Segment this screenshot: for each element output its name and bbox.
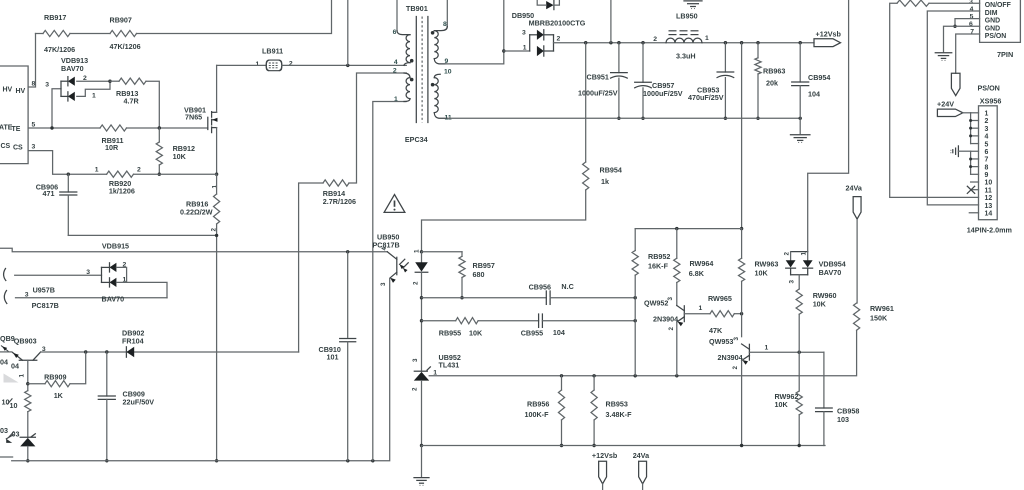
junction <box>105 350 108 353</box>
wire QB903 base down <box>27 360 29 390</box>
svg-text:14PIN-2.0mm: 14PIN-2.0mm <box>967 225 1012 234</box>
svg-text:8: 8 <box>443 21 447 28</box>
junction <box>592 374 595 377</box>
net flag PS/ON <box>951 73 960 95</box>
svg-text:1: 1 <box>413 249 420 253</box>
svg-text:2N3904: 2N3904 <box>653 315 678 324</box>
resistor (ON/OFF series, cropped) <box>897 0 929 6</box>
capacitor CB957 1000uF/25V <box>642 43 644 83</box>
svg-text:470uF/25V: 470uF/25V <box>688 93 724 102</box>
svg-text:3: 3 <box>985 126 989 133</box>
polarity dot <box>410 59 414 63</box>
junction <box>798 351 801 354</box>
IC U901 (controller, cropped at left edge) <box>0 66 28 164</box>
svg-text:2: 2 <box>289 60 293 67</box>
LED of UB950 <box>421 252 423 262</box>
junction <box>420 250 423 253</box>
svg-text:RW965: RW965 <box>708 294 732 303</box>
junction <box>84 350 87 353</box>
resistor RB907 <box>110 30 137 36</box>
svg-text:3: 3 <box>380 282 387 286</box>
svg-text:+12Vsb: +12Vsb <box>816 30 842 39</box>
svg-text:2: 2 <box>783 252 790 256</box>
svg-text:7: 7 <box>985 157 989 164</box>
svg-text:CB951: CB951 <box>587 73 609 82</box>
secondary winding pins 8-9 <box>446 0 448 27</box>
svg-text:RB956: RB956 <box>527 400 549 409</box>
svg-text:3: 3 <box>733 337 740 341</box>
wire GATE pin5 / gate net <box>28 127 100 129</box>
svg-text:3: 3 <box>25 291 29 298</box>
divider top rail <box>635 228 741 230</box>
junction <box>50 126 53 129</box>
resistor RW961 150K <box>854 303 860 330</box>
wire +12V to divider rail <box>741 43 743 229</box>
svg-text:6.8K: 6.8K <box>689 269 705 278</box>
wire HV pin8 to top rail <box>28 34 35 88</box>
capacitor CB954 104 <box>799 43 801 82</box>
junction <box>346 459 349 462</box>
polarity dot <box>410 78 414 82</box>
svg-text:QB9: QB9 <box>0 334 15 343</box>
capacitor CB958 103 <box>816 407 833 409</box>
svg-text:TB901: TB901 <box>406 4 428 13</box>
svg-text:RB909: RB909 <box>44 373 66 382</box>
zener diode (ghost D 03) <box>27 412 29 438</box>
resistor RB914 2.7R/1206 <box>323 180 349 186</box>
svg-text:3: 3 <box>788 280 795 284</box>
svg-text:20k: 20k <box>766 78 778 87</box>
resistor RB957 680 <box>461 252 463 256</box>
junction <box>641 41 644 44</box>
junction <box>740 41 743 44</box>
svg-text:RB953: RB953 <box>606 400 628 409</box>
svg-text:BAV70: BAV70 <box>102 295 125 304</box>
resistor RB911 <box>100 125 127 131</box>
svg-text:+12Vsb: +12Vsb <box>592 451 618 460</box>
svg-text:04: 04 <box>11 362 19 371</box>
svg-text:1: 1 <box>212 185 219 189</box>
wire upper feedback <box>422 297 547 299</box>
junction <box>108 80 111 83</box>
svg-text:HV: HV <box>16 88 26 95</box>
svg-text:1: 1 <box>985 111 989 118</box>
resistor RB912 <box>158 128 160 142</box>
junction <box>560 444 563 447</box>
svg-text:16K-F: 16K-F <box>648 262 669 271</box>
svg-text:1: 1 <box>95 167 99 174</box>
light arrows <box>400 259 405 264</box>
wire RB920 to source <box>134 173 217 175</box>
junction <box>215 234 218 237</box>
wire transformer pin1 down to ground rail <box>373 102 407 461</box>
resistor RB952 16K-F <box>634 229 636 251</box>
svg-text:14: 14 <box>985 210 993 217</box>
svg-text:XS956: XS956 <box>980 97 1002 106</box>
wire VDB913 anodes to RB913 <box>77 80 110 82</box>
svg-text:13: 13 <box>985 203 993 210</box>
resistor RB954 1k <box>585 43 587 162</box>
svg-text:2: 2 <box>412 387 419 391</box>
wire pin9 to rectifier riser <box>446 0 504 64</box>
svg-text:2: 2 <box>732 366 739 370</box>
junction <box>215 459 218 462</box>
svg-text:10K: 10K <box>173 152 187 161</box>
secondary control ground rail <box>422 445 826 447</box>
svg-text:2: 2 <box>653 36 657 43</box>
wire RB914 to DB902 net <box>299 183 323 352</box>
svg-text:BAV70: BAV70 <box>819 268 842 277</box>
svg-text:4: 4 <box>970 6 974 13</box>
junction <box>609 41 612 44</box>
junction <box>675 227 678 230</box>
resistor RW960 10K <box>796 289 802 314</box>
svg-text:10K: 10K <box>755 268 769 277</box>
capacitor CB910 101 <box>347 252 349 337</box>
svg-text:6: 6 <box>969 21 973 28</box>
svg-text:1: 1 <box>705 35 709 42</box>
svg-text:1: 1 <box>92 93 96 100</box>
junction <box>158 173 161 176</box>
svg-text:BAV70: BAV70 <box>61 64 84 73</box>
svg-text:10: 10 <box>444 69 452 76</box>
svg-text:EPC34: EPC34 <box>405 135 428 144</box>
junction <box>617 117 620 120</box>
bus GND pins 6-9 <box>970 151 972 174</box>
junction <box>420 319 423 322</box>
junction <box>740 444 743 447</box>
svg-text:100K-F: 100K-F <box>525 410 550 419</box>
ground <box>414 477 429 479</box>
resistor RB953 3.48K-F <box>593 376 595 390</box>
polarity dot <box>431 31 435 35</box>
svg-text:103: 103 <box>837 415 849 424</box>
ground <box>935 52 952 54</box>
junction <box>799 117 802 120</box>
svg-text:PS/ON: PS/ON <box>985 33 1006 40</box>
polarity dot <box>431 83 435 87</box>
svg-text:03: 03 <box>12 430 20 439</box>
svg-text:RB907: RB907 <box>110 16 132 25</box>
wire GND pin6 to ground <box>944 26 980 52</box>
junction <box>105 459 108 462</box>
svg-text:7PIN: 7PIN <box>997 50 1013 59</box>
svg-text:LB950: LB950 <box>676 12 698 21</box>
svg-text:RB917: RB917 <box>44 13 66 22</box>
junction <box>26 459 29 462</box>
svg-text:10: 10 <box>985 180 993 187</box>
capacitor CB953 470uF/25V <box>724 43 726 72</box>
wire LB911 to transformer pin4 <box>282 64 407 66</box>
svg-text:ON/OFF: ON/OFF <box>985 2 1011 9</box>
svg-text:RW961: RW961 <box>870 304 894 313</box>
svg-text:3: 3 <box>412 358 419 362</box>
svg-text:1: 1 <box>256 61 260 68</box>
svg-text:PC817B: PC817B <box>32 301 59 310</box>
junction <box>798 444 801 447</box>
resistor RW963 10K <box>741 229 743 259</box>
ground (LB950 shield) <box>684 0 702 2</box>
wire RB907 to top edge <box>137 0 332 34</box>
svg-text:N.C: N.C <box>561 282 573 291</box>
svg-text:47K: 47K <box>709 326 723 335</box>
svg-text:CB954: CB954 <box>808 73 830 82</box>
svg-text:2: 2 <box>413 281 420 285</box>
junction <box>502 49 505 52</box>
wire <box>478 320 538 322</box>
svg-text:4: 4 <box>985 134 989 141</box>
wire PS/ON pin7 <box>956 34 980 73</box>
ghost diode <box>6 439 12 443</box>
resistor RW965 47K <box>710 311 734 317</box>
svg-text:10K: 10K <box>813 299 827 308</box>
junction <box>756 41 759 44</box>
svg-text:1: 1 <box>394 96 398 103</box>
svg-text:GND: GND <box>985 25 1000 32</box>
junction <box>634 374 637 377</box>
resistor RW962 10K <box>798 352 800 391</box>
junction <box>26 382 29 385</box>
resistor (ghost R 10) <box>25 391 31 412</box>
resistor RB955 10K <box>456 318 478 324</box>
wire base to CB958 <box>823 352 825 408</box>
svg-text:CS: CS <box>13 145 23 152</box>
wire transformer pin2 to RB914 <box>349 73 406 183</box>
connector 7PIN (cropped at top) <box>980 0 1021 42</box>
capacitor CB906 471 <box>67 174 69 192</box>
svg-text:CB955: CB955 <box>521 329 543 338</box>
junction <box>799 41 802 44</box>
junction <box>460 296 463 299</box>
svg-text:RB955: RB955 <box>439 329 461 338</box>
svg-text:CS: CS <box>1 143 11 150</box>
resistor RB909 1K <box>28 383 45 385</box>
svg-text:2.7R/1206: 2.7R/1206 <box>323 197 356 206</box>
svg-text:1k: 1k <box>601 177 609 186</box>
svg-text:2N3904: 2N3904 <box>718 353 743 362</box>
wire <box>550 297 635 299</box>
svg-text:2: 2 <box>668 327 675 331</box>
junction <box>675 374 678 377</box>
junction <box>158 126 161 129</box>
junction <box>420 296 423 299</box>
secondary winding pins 10-11 <box>434 74 440 77</box>
primary ground rail <box>0 456 13 458</box>
svg-text:QW952: QW952 <box>644 299 668 308</box>
capacitor CB909 22uF/50V <box>106 352 108 396</box>
wire lower feedback <box>422 320 456 322</box>
svg-text:10: 10 <box>2 397 10 406</box>
svg-text:HV: HV <box>3 87 13 94</box>
wire RB954 to opto LED <box>422 190 586 252</box>
primary winding pins 6-4 <box>396 0 398 31</box>
svg-text:47K/1206: 47K/1206 <box>110 42 141 51</box>
junction <box>634 319 637 322</box>
wire source down <box>216 128 218 175</box>
wire U957B pin3 return <box>16 297 168 299</box>
junction <box>420 444 423 447</box>
svg-text:RB954: RB954 <box>600 166 622 175</box>
svg-text:2: 2 <box>557 36 561 43</box>
primary winding pins 2-1 <box>404 73 410 78</box>
ground (rotated, pin 6) <box>957 146 959 157</box>
svg-text:5: 5 <box>985 141 989 148</box>
secondary ground rail <box>447 117 800 119</box>
svg-text:RB963: RB963 <box>763 67 785 76</box>
wire primary feedback rail <box>0 248 387 252</box>
svg-text:12: 12 <box>985 195 993 202</box>
svg-text:3: 3 <box>45 82 49 89</box>
svg-text:1: 1 <box>765 345 769 352</box>
wire DIM to XS956 pin13 <box>927 11 979 205</box>
resistor RB917 <box>36 33 44 35</box>
svg-text:RW963: RW963 <box>755 260 779 269</box>
svg-text:4: 4 <box>381 247 388 251</box>
junction <box>953 25 956 28</box>
svg-text:3.48K-F: 3.48K-F <box>606 410 633 419</box>
junction <box>371 459 374 462</box>
svg-text:MBRB20100CTG: MBRB20100CTG <box>529 19 586 28</box>
svg-text:+24V: +24V <box>937 100 954 109</box>
bus +24V pins 1-5 <box>970 113 972 144</box>
junction <box>724 117 727 120</box>
svg-text:03: 03 <box>0 426 8 435</box>
no-connect X pin 11 <box>967 186 974 193</box>
wire +12V output rail <box>554 42 815 44</box>
wire drain up to LB911 node <box>216 65 218 112</box>
wire GND pin5 <box>955 19 980 27</box>
svg-text:04: 04 <box>0 358 8 367</box>
svg-text:471: 471 <box>43 189 55 198</box>
svg-text:PS/ON: PS/ON <box>978 84 1000 93</box>
svg-text:10K: 10K <box>775 400 789 409</box>
svg-text:1000uF/25V: 1000uF/25V <box>643 89 683 98</box>
svg-text:3: 3 <box>86 269 90 276</box>
svg-text:6: 6 <box>393 29 397 36</box>
junction <box>617 41 620 44</box>
svg-text:680: 680 <box>473 270 485 279</box>
junction <box>346 64 349 67</box>
svg-text:1K: 1K <box>54 391 64 400</box>
pin stubs <box>971 112 979 114</box>
svg-text:4.7R: 4.7R <box>124 97 140 106</box>
svg-text:2: 2 <box>393 68 397 75</box>
warning triangle <box>384 195 405 213</box>
svg-text:1: 1 <box>19 374 26 378</box>
svg-text:3.3uH: 3.3uH <box>676 51 696 60</box>
svg-text:2: 2 <box>211 228 218 232</box>
svg-text:8: 8 <box>985 164 989 171</box>
svg-text:7N65: 7N65 <box>185 113 202 122</box>
svg-text:104: 104 <box>553 328 565 337</box>
wire top-edge feed <box>347 0 349 65</box>
svg-text:RW964: RW964 <box>690 259 714 268</box>
svg-text:CB956: CB956 <box>529 283 551 292</box>
svg-text:DIM: DIM <box>985 10 998 17</box>
junction <box>634 296 637 299</box>
svg-text:FR104: FR104 <box>122 337 144 346</box>
svg-text:U957B: U957B <box>33 286 55 295</box>
QW953 base wire <box>749 351 824 353</box>
svg-text:TL431: TL431 <box>439 361 460 370</box>
junction <box>592 444 595 447</box>
svg-text:1k/1206: 1k/1206 <box>109 186 135 195</box>
svg-text:3: 3 <box>522 30 526 37</box>
svg-text:4: 4 <box>394 59 398 66</box>
junction <box>641 117 644 120</box>
resistor RB956 100K-F <box>561 376 563 390</box>
svg-text:104: 104 <box>808 90 820 99</box>
junction <box>560 374 563 377</box>
svg-text:QW953: QW953 <box>709 337 733 346</box>
svg-text:150K: 150K <box>870 314 888 323</box>
capacitor CB951 1000uF/25V <box>618 43 620 73</box>
svg-text:3: 3 <box>32 144 36 151</box>
svg-text:10: 10 <box>10 401 18 410</box>
capacitor CB956 N.C <box>545 291 547 304</box>
junction <box>756 117 759 120</box>
svg-text:22uF/50V: 22uF/50V <box>123 398 155 407</box>
resistor RB913 <box>110 80 119 82</box>
svg-text:TE: TE <box>12 126 21 133</box>
svg-text:QB903: QB903 <box>14 337 37 346</box>
svg-text:0.22Ω/2W: 0.22Ω/2W <box>180 208 213 217</box>
svg-text:RB952: RB952 <box>648 252 670 261</box>
wire CB906 to RB916 bottom (VDB915 net) <box>68 234 216 236</box>
QW952 base wire <box>684 313 710 315</box>
ground <box>790 134 810 136</box>
junction <box>346 250 349 253</box>
svg-text:RB957: RB957 <box>473 261 495 270</box>
svg-text:24Va: 24Va <box>846 184 863 193</box>
junction <box>724 41 727 44</box>
capacitor CB955 104 <box>538 314 540 327</box>
TL431 ref rail <box>429 330 856 376</box>
junction <box>584 41 587 44</box>
svg-text:1: 1 <box>699 305 703 312</box>
resistor RW964 6.8K <box>676 229 678 259</box>
svg-text:2: 2 <box>137 167 141 174</box>
svg-text:47K/1206: 47K/1206 <box>44 45 75 54</box>
svg-text:1000uF/25V: 1000uF/25V <box>578 88 618 97</box>
wire VDB915 anodes loop <box>116 267 126 282</box>
wire CS pin3 <box>28 151 107 175</box>
wire top-edge feed <box>610 0 612 43</box>
svg-text:3: 3 <box>667 297 674 301</box>
svg-text:LB911: LB911 <box>262 47 283 56</box>
junction <box>740 312 743 315</box>
svg-text:101: 101 <box>327 352 339 361</box>
svg-text:GND: GND <box>985 18 1000 25</box>
wire U957B to VDB915 pin3 <box>15 274 102 276</box>
resistor RB963 20k <box>757 43 759 58</box>
svg-text:6: 6 <box>985 149 989 156</box>
wire to gate <box>127 127 208 129</box>
svg-text:10K: 10K <box>469 329 483 338</box>
svg-text:VDB915: VDB915 <box>102 241 129 250</box>
wire ON/OFF to XS956 pin12 <box>890 3 979 197</box>
wire <box>70 33 110 35</box>
svg-text:2: 2 <box>985 118 989 125</box>
wire LED anode node to RB957 <box>422 251 463 253</box>
svg-text:9: 9 <box>985 172 989 179</box>
wire QB903 collector net <box>41 351 299 353</box>
junction <box>67 173 70 176</box>
junction <box>215 173 218 176</box>
svg-text:24Va: 24Va <box>633 451 650 460</box>
wire 24V aux feed from top edge <box>808 0 849 252</box>
ghost strokes <box>1 346 9 352</box>
